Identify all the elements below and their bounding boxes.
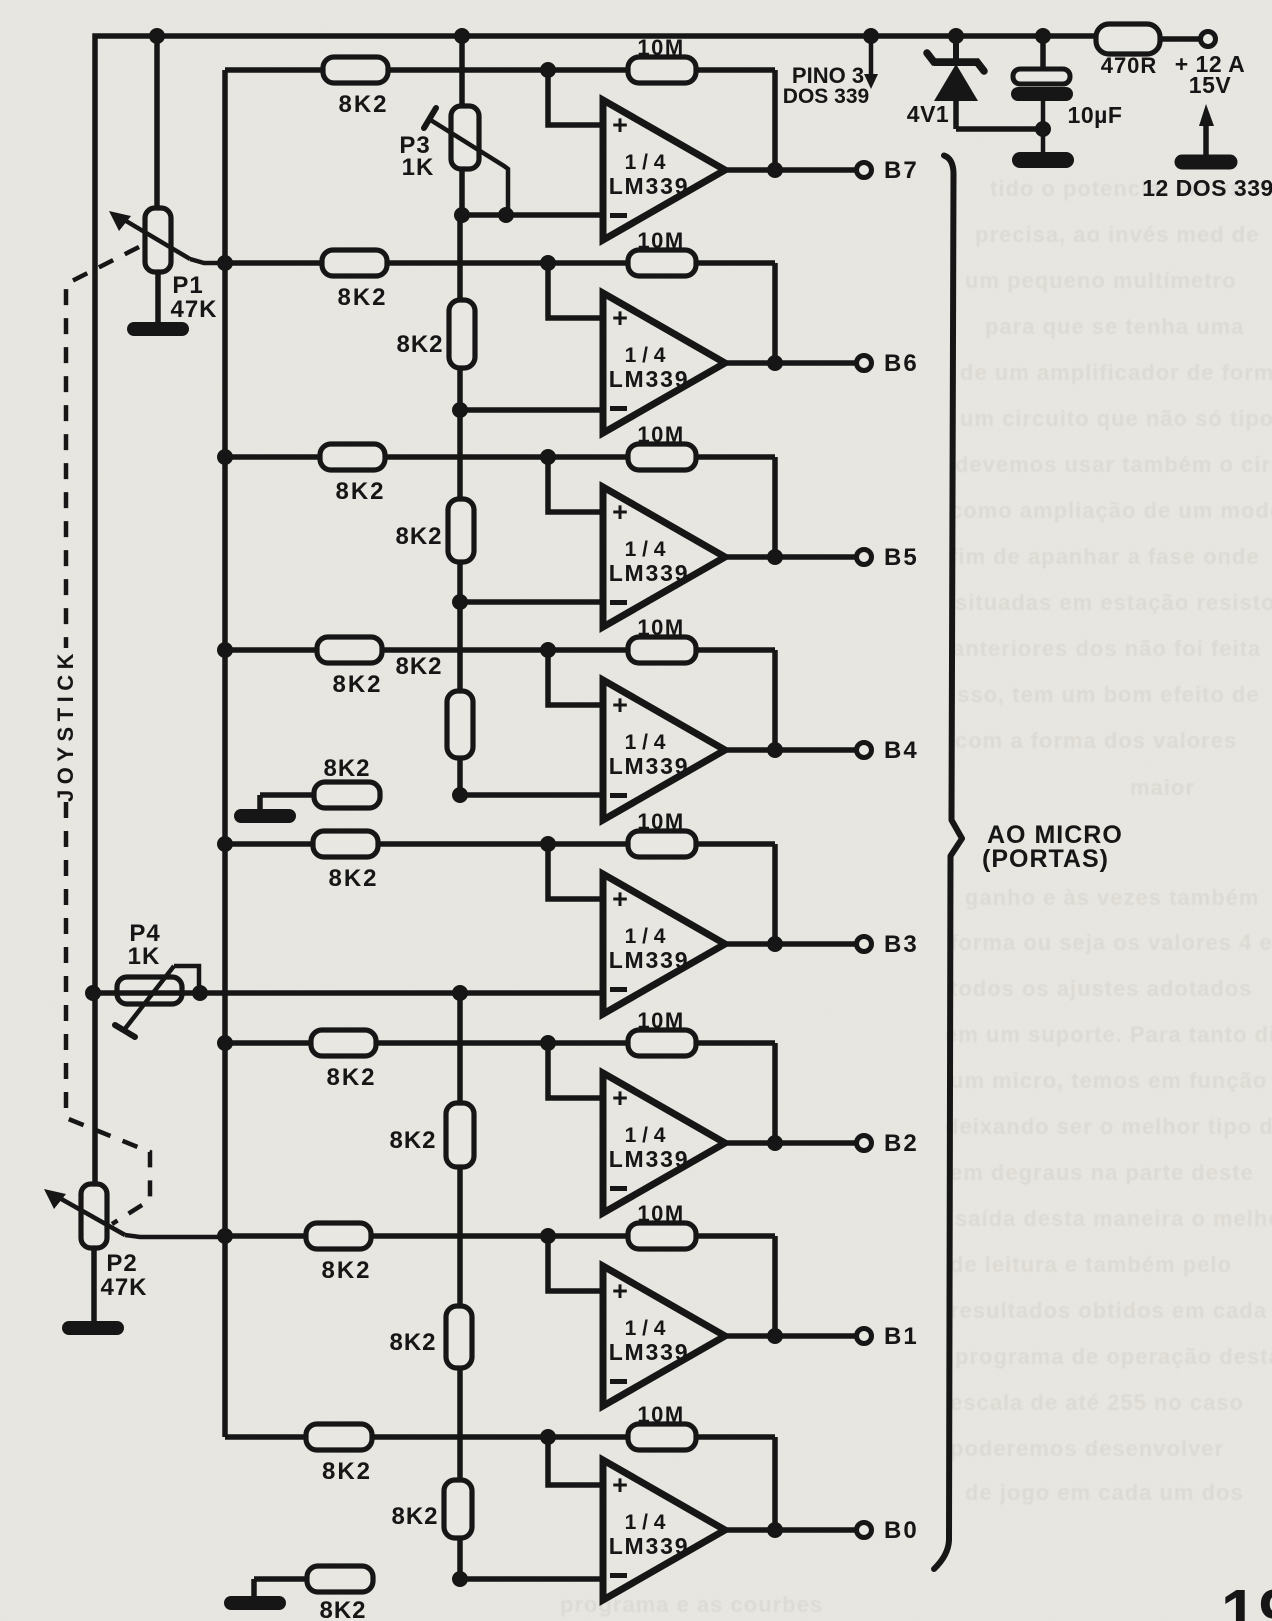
capacitor 10uF bbox=[1011, 69, 1073, 152]
potentiometer P2 47K bbox=[44, 1184, 125, 1248]
resistor 8K2 (B0 input) bbox=[306, 1424, 372, 1450]
junction: B1 output/feedback bbox=[767, 1328, 783, 1344]
junction: bus / B3 feed row bbox=[217, 836, 233, 852]
svg-text:10µF: 10µF bbox=[1068, 102, 1123, 128]
svg-text:1K: 1K bbox=[128, 943, 161, 970]
svg-text:um pequeno multímetro: um pequeno multímetro bbox=[965, 268, 1237, 293]
wire: B1 feed row bbox=[225, 1233, 775, 1239]
svg-text:todos os ajustes adotados: todos os ajustes adotados bbox=[950, 976, 1253, 1001]
svg-text:um circuito que não só tipo: um circuito que não só tipo bbox=[960, 406, 1272, 431]
junction: pin 3 supply takeoff bbox=[863, 28, 879, 44]
wire: B4 + input link bbox=[548, 650, 603, 705]
label AO MICRO (PORTAS) bbox=[982, 821, 1123, 873]
trimmer P4 1K bbox=[115, 966, 199, 1037]
wire: B5 output bbox=[725, 554, 855, 560]
wire: B2 feed row bbox=[225, 1040, 775, 1046]
svg-text:8K2: 8K2 bbox=[389, 1127, 436, 1154]
wire: B4 output bbox=[725, 747, 855, 753]
wire: joystick dashed outline bbox=[66, 247, 150, 1224]
svg-text:precisa, ao invés med de: precisa, ao invés med de bbox=[975, 222, 1259, 247]
svg-text:P2: P2 bbox=[106, 1250, 137, 1277]
wire: B5 + input link bbox=[548, 457, 603, 512]
svg-text:1K: 1K bbox=[402, 154, 435, 181]
wire: B1 feedback link bbox=[772, 1236, 778, 1336]
resistor 8K2 (B6 input) bbox=[322, 250, 387, 276]
wire: P4 to B3 reference tap bbox=[95, 990, 460, 996]
svg-text:programa de operação desta: programa de operação desta bbox=[955, 1344, 1272, 1369]
op-amp comparator 1/4 LM339 (B3) bbox=[603, 874, 725, 1014]
junction: B5 output/feedback bbox=[767, 549, 783, 565]
svg-text:LM339: LM339 bbox=[609, 1339, 690, 1365]
svg-text:B3: B3 bbox=[884, 931, 919, 958]
svg-text:B6: B6 bbox=[884, 350, 919, 377]
resistor 8K2 (ladder, below B3 tap) bbox=[446, 1103, 474, 1167]
resistor 10M (B3 feedback) bbox=[628, 831, 696, 857]
wire: B7 + input link bbox=[548, 70, 603, 125]
resistor 8K2 (upper ladder to ground) bbox=[260, 782, 380, 812]
resistor 8K2 (ladder, bottom) bbox=[444, 1480, 472, 1538]
node B6 output terminal bbox=[857, 356, 872, 371]
junction: B7 output/feedback bbox=[767, 162, 783, 178]
wire: P1 wiper to input bus bbox=[190, 259, 227, 263]
junction: B2 non-inverting feed bbox=[540, 1035, 556, 1051]
junction: zener top bbox=[948, 28, 964, 44]
svg-text:19: 19 bbox=[1221, 1576, 1272, 1621]
svg-text:8K2: 8K2 bbox=[337, 284, 387, 311]
svg-text:47K: 47K bbox=[170, 296, 217, 323]
ground (below P2) bbox=[62, 1321, 124, 1335]
wire: B1 + input link bbox=[548, 1236, 603, 1291]
node B2 output terminal bbox=[857, 1136, 872, 1151]
svg-text:1 / 4: 1 / 4 bbox=[625, 344, 666, 367]
wire: B5 feed row bbox=[225, 454, 775, 460]
wire: upper reference ladder bbox=[457, 215, 463, 795]
wire: comparator input bus (vertical) bbox=[222, 70, 228, 1437]
resistor 8K2 (B4 input) bbox=[317, 637, 382, 663]
wire: B7 feedback link bbox=[772, 70, 778, 170]
op-amp comparator 1/4 LM339 (B2) bbox=[603, 1073, 725, 1213]
resistor 8K2 (ladder, B7-B6) bbox=[449, 300, 475, 368]
wire: B3 feed row bbox=[225, 841, 775, 847]
svg-text:anteriores dos não foi feita: anteriores dos não foi feita bbox=[952, 636, 1261, 661]
svg-text:1 / 4: 1 / 4 bbox=[625, 1511, 666, 1534]
resistor 8K2 (B1 input) bbox=[306, 1223, 371, 1249]
svg-text:10M: 10M bbox=[637, 1201, 684, 1226]
resistor 8K2 (ladder, B6-B5) bbox=[448, 499, 474, 562]
resistor 10M (B0 feedback) bbox=[628, 1424, 696, 1450]
junction: ladder tap B6 bbox=[452, 402, 468, 418]
label P1 47K bbox=[170, 272, 217, 323]
resistor 8K2 (ladder, B5-B4) bbox=[447, 691, 473, 758]
wire: P1 top lead bbox=[154, 36, 160, 210]
svg-text:8K2: 8K2 bbox=[389, 1329, 436, 1356]
svg-text:12 DOS 339: 12 DOS 339 bbox=[1142, 175, 1272, 201]
junction: B6 non-inverting feed bbox=[540, 255, 556, 271]
svg-text:B5: B5 bbox=[884, 544, 919, 571]
svg-text:10M: 10M bbox=[637, 1402, 684, 1427]
pin 12 supply point (12 DOS 339) bbox=[1175, 104, 1238, 170]
svg-text:JOYSTICK: JOYSTICK bbox=[53, 648, 78, 802]
junction: ladder tap B4 bbox=[452, 787, 468, 803]
node: P3 top connection to rail bbox=[454, 28, 470, 44]
resistor 10M (B7 feedback) bbox=[628, 57, 696, 83]
svg-text:8K2: 8K2 bbox=[326, 1064, 376, 1091]
wire: B6 + input link bbox=[548, 263, 603, 318]
svg-text:470R: 470R bbox=[1101, 53, 1158, 78]
wire: B0 + input link bbox=[548, 1437, 603, 1485]
svg-text:devemos usar também o circuito: devemos usar também o circuito bbox=[955, 452, 1272, 477]
junction: P4 left lead on supply branch bbox=[85, 985, 101, 1001]
svg-text:programa e as courbes: programa e as courbes bbox=[560, 1592, 823, 1617]
wire: P2 bottom lead to ground bbox=[91, 1248, 97, 1322]
svg-text:LM339: LM339 bbox=[609, 753, 690, 779]
resistor 8K2 (ladder, middle) bbox=[446, 1306, 472, 1368]
svg-text:10M: 10M bbox=[637, 1008, 684, 1033]
junction: bus / B2 feed row bbox=[217, 1035, 233, 1051]
resistor 10M (B1 feedback) bbox=[628, 1223, 696, 1249]
junction: B0 non-inverting feed bbox=[540, 1429, 556, 1445]
junction: P4 wiper join bbox=[192, 985, 208, 1001]
node: P1 top connection to rail bbox=[149, 28, 165, 44]
node B4 output terminal bbox=[857, 743, 872, 758]
resistor 10M (B5 feedback) bbox=[628, 444, 696, 470]
wire: P2 wiper to input bus bbox=[125, 1235, 225, 1237]
resistor 10M (B2 feedback) bbox=[628, 1030, 696, 1056]
svg-text:10M: 10M bbox=[637, 422, 684, 447]
svg-text:B7: B7 bbox=[884, 157, 919, 184]
label P2 47K bbox=[100, 1250, 147, 1301]
wire: P3 top lead bbox=[459, 36, 465, 108]
ground (lower ladder) bbox=[224, 1596, 286, 1610]
wire: B7 - input from ladder tap bbox=[460, 212, 603, 218]
label PINO 3 DOS 339 bbox=[783, 63, 869, 108]
ground (capacitor) bbox=[1012, 152, 1074, 168]
wire: B5 - input from ladder tap bbox=[460, 599, 603, 605]
wire: B0 feed row bbox=[225, 1434, 775, 1440]
svg-text:1 / 4: 1 / 4 bbox=[625, 1124, 666, 1147]
trimmer P3 1K bbox=[424, 106, 508, 214]
svg-text:B0: B0 bbox=[884, 1517, 919, 1544]
pin 3 arrow (PINO 3 DOS 339) bbox=[864, 36, 878, 89]
wire: B4 - input from ladder tap bbox=[460, 792, 603, 798]
wire: 470R to +12 terminal bbox=[1160, 36, 1201, 42]
junction: capacitor top on rail bbox=[1035, 28, 1051, 44]
ground (upper ladder) bbox=[234, 809, 296, 823]
op-amp comparator 1/4 LM339 (B6) bbox=[603, 293, 725, 433]
resistor 8K2 (B7 input) bbox=[323, 57, 388, 83]
svg-text:DOS 339: DOS 339 bbox=[783, 85, 869, 108]
wire: P3 bottom lead to ladder tap bbox=[459, 169, 465, 215]
junction: bus / B5 feed row bbox=[217, 449, 233, 465]
svg-text:10M: 10M bbox=[637, 615, 684, 640]
svg-text:8K2: 8K2 bbox=[323, 755, 370, 782]
node B7 output terminal bbox=[857, 163, 872, 178]
resistor 10M (B4 feedback) bbox=[628, 637, 696, 663]
wire: zener anode to capacitor ground node bbox=[956, 126, 1043, 132]
wire: B6 output bbox=[725, 360, 855, 366]
svg-text:LM339: LM339 bbox=[609, 366, 690, 392]
wire: lower reference ladder bbox=[457, 993, 463, 1579]
junction: B6 output/feedback bbox=[767, 355, 783, 371]
svg-text:8K2: 8K2 bbox=[321, 1257, 371, 1284]
node B3 output terminal bbox=[857, 937, 872, 952]
svg-text:47K: 47K bbox=[100, 1274, 147, 1301]
wire: B6 - input from ladder tap bbox=[460, 407, 603, 413]
junction: B2 output/feedback bbox=[767, 1135, 783, 1151]
svg-text:8K2: 8K2 bbox=[396, 331, 443, 358]
svg-text:com a forma dos valores: com a forma dos valores bbox=[955, 728, 1237, 753]
svg-text:ganho e às vezes também: ganho e às vezes também bbox=[965, 885, 1259, 910]
svg-text:8K2: 8K2 bbox=[328, 865, 378, 892]
wire: B0 feedback link bbox=[772, 1437, 778, 1530]
svg-text:de leitura e também pelo: de leitura e também pelo bbox=[950, 1252, 1232, 1277]
potentiometer P1 47K bbox=[109, 208, 190, 272]
op-amp comparator 1/4 LM339 (B4) bbox=[603, 680, 725, 820]
svg-text:em um suporte. Para tanto diss: em um suporte. Para tanto disso bbox=[945, 1022, 1272, 1047]
svg-text:1 / 4: 1 / 4 bbox=[625, 538, 666, 561]
svg-text:situadas em estação resistores: situadas em estação resistores bbox=[955, 590, 1272, 615]
svg-text:+: + bbox=[612, 690, 628, 720]
svg-text:deixando ser o melhor tipo de: deixando ser o melhor tipo de bbox=[945, 1114, 1272, 1139]
svg-text:8K2: 8K2 bbox=[391, 1503, 438, 1530]
junction: ladder tap B0 bbox=[452, 1571, 468, 1587]
svg-text:+: + bbox=[612, 1083, 628, 1113]
svg-text:8K2: 8K2 bbox=[332, 671, 382, 698]
junction: ladder tap B3 bbox=[452, 985, 468, 1001]
resistor 8K2 (lower ladder to ground) bbox=[254, 1566, 373, 1598]
svg-text:em degraus na parte deste: em degraus na parte deste bbox=[950, 1160, 1254, 1185]
op-amp comparator 1/4 LM339 (B5) bbox=[603, 487, 725, 627]
wire: B7 output bbox=[725, 167, 855, 173]
wire: B1 output bbox=[725, 1333, 855, 1339]
label P4 1K bbox=[128, 920, 161, 970]
junction: B4 non-inverting feed bbox=[540, 642, 556, 658]
svg-text:10M: 10M bbox=[637, 809, 684, 834]
wire: +12V top supply rail bbox=[95, 36, 1096, 1184]
svg-text:+: + bbox=[612, 303, 628, 333]
svg-text:LM339: LM339 bbox=[609, 1146, 690, 1172]
junction: P3 wiper on B7 reference tap bbox=[498, 207, 514, 223]
junction: B3 output/feedback bbox=[767, 936, 783, 952]
node B1 output terminal bbox=[857, 1329, 872, 1344]
svg-text:+: + bbox=[612, 497, 628, 527]
resistor 8K2 (B5 input) bbox=[320, 444, 385, 470]
junction: ladder tap B5 bbox=[452, 594, 468, 610]
svg-text:8K2: 8K2 bbox=[338, 91, 388, 118]
svg-text:de jogo em cada um dos: de jogo em cada um dos bbox=[965, 1480, 1244, 1505]
node +12 supply terminal bbox=[1201, 32, 1216, 47]
resistor 8K2 (B2 input) bbox=[311, 1030, 376, 1056]
junction: zener/capacitor node bbox=[1035, 121, 1051, 137]
svg-text:B4: B4 bbox=[884, 737, 919, 764]
svg-text:8K2: 8K2 bbox=[395, 653, 442, 680]
wire: B3 + input link bbox=[548, 844, 603, 899]
svg-text:1 / 4: 1 / 4 bbox=[625, 731, 666, 754]
svg-text:forma ou seja os valores 4 e: forma ou seja os valores 4 e bbox=[950, 930, 1272, 955]
svg-text:+: + bbox=[612, 1470, 628, 1500]
wire: B6 feedback link bbox=[772, 263, 778, 363]
svg-text:resultados obtidos em cada: resultados obtidos em cada bbox=[950, 1298, 1267, 1323]
node B0 output terminal bbox=[857, 1523, 872, 1538]
svg-text:15V: 15V bbox=[1189, 72, 1232, 98]
svg-text:poderemos desenvolver: poderemos desenvolver bbox=[950, 1436, 1224, 1461]
label P3 1K bbox=[399, 132, 434, 181]
svg-text:B2: B2 bbox=[884, 1130, 919, 1157]
junction: B4 output/feedback bbox=[767, 742, 783, 758]
svg-text:saída desta maneira o melhor: saída desta maneira o melhor bbox=[955, 1206, 1272, 1231]
svg-text:fim de apanhar a fase onde: fim de apanhar a fase onde bbox=[950, 544, 1260, 569]
wire: B2 output bbox=[725, 1140, 855, 1146]
svg-text:8K2: 8K2 bbox=[319, 1597, 366, 1621]
svg-text:10M: 10M bbox=[637, 228, 684, 253]
junction: B3 non-inverting feed bbox=[540, 836, 556, 852]
svg-text:LM339: LM339 bbox=[609, 1533, 690, 1559]
svg-text:P1: P1 bbox=[172, 272, 203, 299]
svg-text:para que se tenha uma: para que se tenha uma bbox=[985, 314, 1244, 339]
op-amp comparator 1/4 LM339 (B1) bbox=[603, 1266, 725, 1406]
junction: B5 non-inverting feed bbox=[540, 449, 556, 465]
label +12A 15V bbox=[1175, 51, 1246, 98]
junction: bus / B6 feed row bbox=[217, 255, 233, 271]
brace: outputs to micro bbox=[934, 156, 962, 1570]
junction: B1 non-inverting feed bbox=[540, 1228, 556, 1244]
op-amp comparator 1/4 LM339 (B0) bbox=[603, 1460, 725, 1600]
svg-text:(PORTAS): (PORTAS) bbox=[982, 845, 1109, 873]
svg-text:+: + bbox=[612, 1276, 628, 1306]
junction: bus / B4 feed row bbox=[217, 642, 233, 658]
svg-text:1 / 4: 1 / 4 bbox=[625, 1317, 666, 1340]
wire: B6 feed row bbox=[225, 260, 775, 266]
wire: B2 feedback link bbox=[772, 1043, 778, 1143]
svg-text:8K2: 8K2 bbox=[322, 1458, 372, 1485]
svg-text:+: + bbox=[612, 110, 628, 140]
wire: B3 - input from ladder tap bbox=[460, 990, 603, 996]
junction: B0 output/feedback bbox=[767, 1522, 783, 1538]
svg-text:como ampliação de um modo que: como ampliação de um modo que bbox=[950, 498, 1272, 523]
resistor 470R bbox=[1096, 24, 1160, 54]
wire: B4 feed row bbox=[225, 647, 775, 653]
svg-text:LM339: LM339 bbox=[609, 173, 690, 199]
resistor 8K2 (B3 input) bbox=[313, 831, 378, 857]
svg-text:8K2: 8K2 bbox=[335, 478, 385, 505]
zener diode 4V1 bbox=[927, 36, 984, 129]
svg-text:maior: maior bbox=[1130, 775, 1195, 800]
svg-text:+: + bbox=[612, 884, 628, 914]
wire: B4 feedback link bbox=[772, 650, 778, 750]
svg-text:8K2: 8K2 bbox=[395, 523, 442, 550]
wire: B0 output bbox=[725, 1527, 855, 1533]
junction: ladder tap B7 bbox=[454, 207, 470, 223]
wire: B3 feedback link bbox=[772, 844, 778, 944]
wire: P1 bottom lead to ground bbox=[155, 272, 161, 324]
resistor 10M (B6 feedback) bbox=[628, 250, 696, 276]
svg-text:B1: B1 bbox=[884, 1323, 919, 1350]
svg-text:4V1: 4V1 bbox=[907, 101, 949, 127]
svg-text:isso, tem um bom efeito de: isso, tem um bom efeito de bbox=[950, 682, 1260, 707]
junction: B7 non-inverting feed bbox=[540, 62, 556, 78]
svg-text:1 / 4: 1 / 4 bbox=[625, 925, 666, 948]
svg-text:LM339: LM339 bbox=[609, 560, 690, 586]
wire: B3 output bbox=[725, 941, 855, 947]
ground (below P1) bbox=[127, 322, 189, 336]
wire: B0 - input from ladder tap bbox=[460, 1576, 603, 1582]
wire: B2 + input link bbox=[548, 1043, 603, 1098]
node B5 output terminal bbox=[857, 550, 872, 565]
wire: capacitor top lead bbox=[1040, 36, 1046, 70]
op-amp comparator 1/4 LM339 (B7) bbox=[603, 100, 725, 240]
svg-text:escala de até 255 no caso: escala de até 255 no caso bbox=[950, 1390, 1244, 1415]
wire: B7 feed row bbox=[225, 67, 775, 73]
junction: bus / B1 feed row bbox=[217, 1228, 233, 1244]
svg-text:1 / 4: 1 / 4 bbox=[625, 151, 666, 174]
svg-text:de um amplificador de formas: de um amplificador de formas bbox=[960, 360, 1272, 385]
svg-text:um micro, temos em função: um micro, temos em função bbox=[950, 1068, 1267, 1093]
svg-text:10M: 10M bbox=[637, 35, 684, 60]
svg-text:LM339: LM339 bbox=[609, 947, 690, 973]
wire: B5 feedback link bbox=[772, 457, 778, 557]
